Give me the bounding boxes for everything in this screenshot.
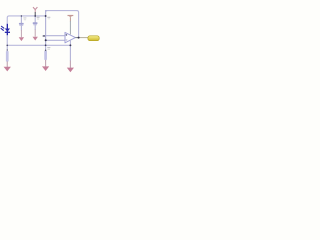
wire: top rail bbox=[47, 10, 77, 12]
junction dot at x=35.2 top wire bbox=[34, 15, 36, 17]
capacitor C3 branch at x=35.2 bbox=[33, 16, 38, 41]
photodiode D1 bbox=[1, 24, 10, 35]
junction dot at (7.25,45.3) bbox=[6, 45, 8, 47]
ground arrow branch at x=45.6 bbox=[42, 45, 49, 71]
wire: feedback right vertical bbox=[77, 11, 79, 38]
op-amp output pin bbox=[75, 37, 78, 39]
wire: op-amp non-inverting input bbox=[43, 35, 65, 37]
power symbol VCC at x=35.2 bbox=[33, 7, 37, 16]
wire: op-amp inverting input bbox=[46, 39, 65, 41]
wire: output to label bbox=[79, 37, 89, 39]
pin dot on ground shaft x=7.25 bbox=[7, 49, 8, 50]
op-amp V+ pin bbox=[69, 18, 71, 22]
wire: top-left L from node A down left side bbox=[7, 16, 45, 45]
ground arrow bbox=[33, 37, 38, 41]
ground arrow branch at x=7.25 bbox=[4, 45, 11, 71]
op-amp U1 bbox=[65, 32, 75, 42]
junction dot J1 at (45.6,16) bbox=[45, 15, 47, 17]
wire: bottom rail bbox=[7, 44, 70, 46]
capacitor C2 branch at x=21.4 bbox=[19, 16, 24, 41]
junction dot at node A x=21.4 bbox=[21, 15, 22, 16]
ground arrow branch at x=70.4 bbox=[67, 45, 74, 72]
junction dot at (70.4,45.3) bbox=[69, 44, 71, 46]
op-amp V- pin bbox=[69, 41, 71, 46]
label text smudges bbox=[23, 17, 50, 50]
output net label tag bbox=[88, 36, 99, 41]
wire: feedback vertical V1 bbox=[46, 11, 48, 46]
junction dot at (45.6,45.3) bbox=[45, 44, 47, 46]
pin dot on ground shaft x=45.6 bbox=[45, 49, 47, 51]
power symbol V+ bar bbox=[68, 16, 74, 18]
junction dot at (45.7,40.3) bbox=[45, 39, 47, 41]
ground arrow bbox=[19, 37, 24, 41]
junction dot at (78.6,37.6) bbox=[78, 37, 80, 39]
